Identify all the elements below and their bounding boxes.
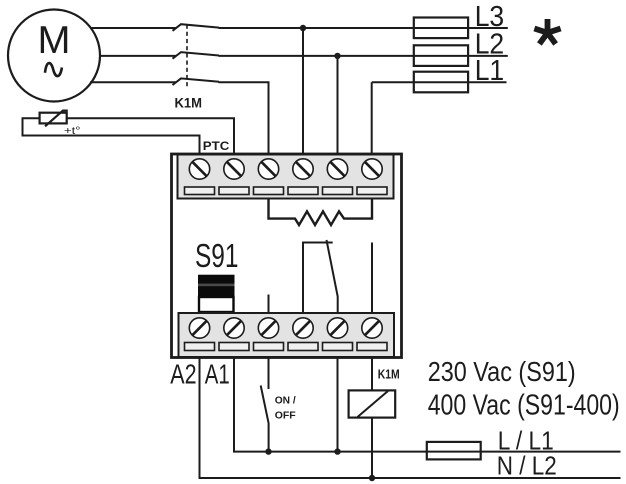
screw terminal 12	[362, 159, 382, 179]
wire through L3 box	[414, 27, 508, 29]
terminal opening 5	[323, 343, 353, 351]
svg-text:230 Vac (S91): 230 Vac (S91)	[428, 356, 576, 387]
terminal opening A2	[185, 343, 215, 351]
screw terminal 7	[189, 159, 209, 179]
svg-text:N / L2: N / L2	[497, 452, 557, 480]
wire T6 to coil	[371, 357, 373, 390]
svg-text:A1: A1	[205, 358, 230, 390]
terminal opening 7	[185, 187, 215, 195]
contact K1M pole1 blade	[173, 24, 220, 31]
terminal opening 4	[288, 343, 318, 351]
wire through L2 box	[414, 55, 508, 57]
screw terminal 6	[362, 318, 382, 338]
wire T4 drop	[302, 28, 304, 155]
bottom terminal strip	[179, 313, 395, 357]
svg-text:A2: A2	[170, 358, 196, 390]
terminal opening 6	[357, 343, 387, 351]
svg-text:400 Vac (S91-400): 400 Vac (S91-400)	[428, 390, 620, 422]
svg-text:PTC: PTC	[203, 139, 230, 153]
wire phase3 contact to T3	[219, 82, 269, 155]
component S91 relay body	[198, 275, 235, 312]
screw terminal 5	[327, 318, 347, 338]
fuse F1 body	[427, 442, 481, 460]
wire PTC left loop to T1	[23, 118, 200, 155]
node T5 wire to L line	[334, 448, 340, 454]
screw terminal 11	[327, 159, 347, 179]
wire coil to N line	[371, 418, 373, 478]
terminal opening 11	[323, 187, 353, 195]
screw terminal 9	[258, 159, 278, 179]
wire phase3 motor to contact	[90, 81, 176, 83]
relay contact internal T4	[303, 243, 333, 314]
thermistor PTC body	[40, 113, 67, 124]
node junction phase1/T4	[300, 25, 306, 31]
top terminal strip	[178, 155, 394, 199]
svg-text:K1M: K1M	[175, 96, 203, 111]
fuse box L2	[414, 45, 468, 66]
screw terminal 8	[224, 159, 244, 179]
wire phase2 motor to contact	[99, 55, 176, 57]
switch S ON/OFF blade	[261, 386, 269, 452]
coil K1M body	[349, 390, 396, 417]
svg-text:OFF: OFF	[275, 409, 297, 421]
svg-text:S91: S91	[195, 238, 239, 275]
wire phase1 contact to L3 box	[219, 27, 415, 29]
contact K1M pole3 blade	[173, 78, 220, 85]
fuse box L1	[414, 72, 468, 93]
relay contact blade internal	[327, 240, 338, 314]
wire PTC right to T2	[67, 118, 234, 155]
node coil to N line	[369, 475, 375, 481]
wire through L1 box	[372, 81, 507, 83]
wire T5 bottom to L line	[337, 357, 339, 452]
terminal opening 12	[357, 187, 387, 195]
wire A1 to L line	[234, 357, 621, 452]
terminal opening 8	[219, 187, 249, 195]
screw terminal A1	[224, 318, 244, 338]
terminal opening 3	[254, 343, 284, 351]
coil K1M diagonal	[358, 391, 389, 417]
svg-text:L1: L1	[475, 55, 505, 87]
svg-text:L / L1: L / L1	[498, 427, 554, 455]
svg-text:M: M	[38, 18, 71, 62]
wire T5 drop	[337, 56, 339, 155]
wire phase2 contact to L2 box	[219, 55, 415, 57]
node junction phase2/T5	[334, 53, 340, 59]
screw terminal 3	[258, 318, 278, 338]
screw terminal 4	[293, 318, 313, 338]
contact linkage dashed line	[186, 25, 188, 90]
svg-text:K1M: K1M	[378, 367, 400, 381]
fuse box L3	[414, 18, 468, 39]
wire stub bottom T3 internal	[268, 295, 270, 314]
node switch to L line	[265, 448, 271, 454]
screw terminal 10	[293, 159, 313, 179]
terminal opening 10	[288, 187, 318, 195]
motor sine symbol	[45, 63, 62, 76]
screw terminal A2	[189, 318, 209, 338]
terminal opening A1	[219, 343, 249, 351]
svg-text:ON /: ON /	[275, 394, 296, 406]
wire A2 to N line	[200, 357, 621, 478]
thermistor diagonal mark	[45, 111, 68, 127]
wire phase1 motor to contact	[90, 27, 176, 29]
relay module box U1	[172, 154, 402, 358]
contact K1M pole2 blade	[173, 52, 220, 59]
wire L1 to T6 drop	[371, 82, 373, 155]
switch S ON/OFF stub	[268, 357, 270, 389]
resistor R1 internal	[269, 199, 373, 226]
asterisk note	[533, 19, 561, 46]
terminal opening 9	[254, 187, 284, 195]
motor M1 circle	[8, 10, 100, 102]
wire stub internal T6	[371, 243, 373, 314]
